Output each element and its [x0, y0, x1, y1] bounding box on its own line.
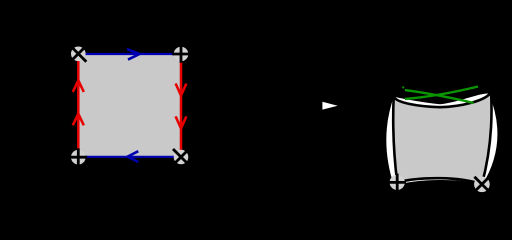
arrowhead a left 2 — [73, 114, 84, 126]
cone point plus top-right — [172, 45, 190, 63]
corner circle bottom-left — [71, 150, 86, 165]
green crease line 2 — [405, 87, 478, 99]
edge a left (red) — [77, 54, 80, 157]
arrowhead a left 1 — [73, 80, 84, 92]
edge b bottom (blue) — [78, 156, 181, 158]
arrowhead b bottom — [128, 151, 139, 162]
edge b top (blue) — [78, 53, 181, 55]
arrowhead a right 2 — [176, 116, 187, 128]
cone point x top-left — [70, 46, 86, 62]
corner circle bottom-right — [174, 150, 189, 165]
arrowhead a right 1 — [176, 84, 187, 96]
pillow cone point plus bottom-left — [388, 174, 406, 192]
pillow corner circle bottom-right — [474, 177, 490, 193]
pillow front panel (gray) — [393, 92, 491, 185]
pillow cone point x bottom-right — [474, 177, 489, 192]
corner circle top-left — [71, 47, 86, 62]
green crease dot — [402, 86, 404, 88]
arrowhead b top — [127, 49, 140, 60]
pillow back panel (white) — [385, 92, 499, 187]
pillow corner circle bottom-left — [390, 175, 405, 190]
edge a right (red) — [180, 54, 183, 157]
green crease line 1 — [405, 90, 474, 103]
square fundamental polygon fill — [78, 54, 181, 157]
cone point plus bottom-left — [70, 148, 88, 166]
cone point x bottom-right — [173, 149, 189, 165]
corner circle top-right — [174, 47, 189, 62]
quotient map arrow (white head) — [322, 102, 337, 110]
